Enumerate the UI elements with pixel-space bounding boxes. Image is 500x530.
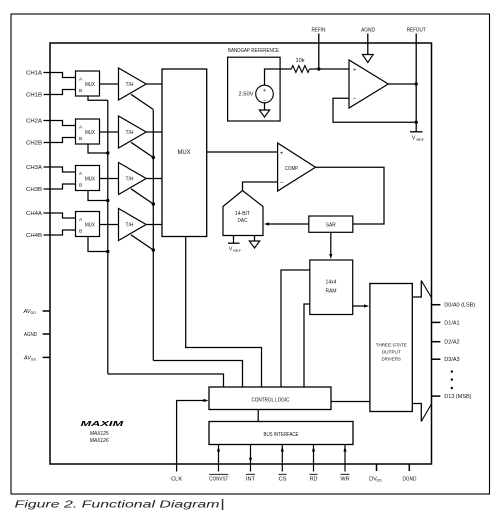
svg-text:CH2A: CH2A — [26, 119, 42, 125]
svg-text:14x4: 14x4 — [326, 280, 337, 286]
svg-text:MAXIM: MAXIM — [81, 419, 125, 428]
svg-text:MUX: MUX — [85, 176, 95, 182]
svg-text:D1/A1: D1/A1 — [444, 320, 459, 326]
svg-text:CH3B: CH3B — [26, 187, 42, 193]
svg-text:CH4A: CH4A — [26, 211, 42, 217]
svg-text:AGND: AGND — [361, 28, 375, 34]
svg-text:D0/A0 (LSB): D0/A0 (LSB) — [444, 303, 475, 309]
svg-text:CS: CS — [279, 477, 287, 483]
svg-text:2.50V: 2.50V — [239, 92, 255, 98]
svg-text:CONTROL LOGIC: CONTROL LOGIC — [252, 398, 290, 404]
svg-text:14-BIT: 14-BIT — [235, 211, 250, 217]
svg-text:AGND: AGND — [24, 332, 37, 338]
svg-text:B: B — [79, 229, 82, 235]
svg-text:T/H: T/H — [126, 130, 134, 136]
svg-text:CLK: CLK — [171, 477, 182, 483]
svg-text:DD: DD — [377, 479, 383, 483]
svg-text:CH3A: CH3A — [26, 165, 42, 171]
svg-text:T/H: T/H — [126, 82, 134, 88]
svg-text:V: V — [229, 247, 233, 253]
svg-text:OUTPUT: OUTPUT — [382, 350, 401, 355]
svg-text:DAC: DAC — [238, 218, 248, 224]
svg-text:Figure 2. Functional Diagram: Figure 2. Functional Diagram — [15, 500, 220, 511]
svg-text:CH2B: CH2B — [26, 141, 42, 147]
svg-text:RD: RD — [310, 477, 318, 483]
svg-text:MUX: MUX — [85, 82, 95, 88]
svg-text:+: + — [263, 88, 266, 94]
svg-text:CH1A: CH1A — [26, 71, 42, 77]
svg-text:RAM: RAM — [326, 289, 337, 295]
svg-text:T/H: T/H — [126, 223, 134, 229]
svg-text:+: + — [280, 150, 284, 157]
svg-text:T/H: T/H — [126, 177, 134, 183]
svg-text:D3/A3: D3/A3 — [444, 357, 459, 363]
svg-text:WR: WR — [341, 477, 350, 483]
svg-text:D13 (MSB): D13 (MSB) — [444, 394, 471, 400]
svg-text:COMP: COMP — [285, 166, 299, 172]
svg-text:DGND: DGND — [403, 477, 417, 483]
svg-text:MUX: MUX — [178, 150, 191, 156]
svg-text:MAX125: MAX125 — [90, 431, 110, 437]
svg-text:THREE-STATE: THREE-STATE — [376, 343, 407, 348]
svg-text:CH1B: CH1B — [26, 93, 42, 99]
svg-text:MAX126: MAX126 — [90, 438, 110, 444]
svg-text:REF: REF — [233, 249, 241, 253]
svg-text:B: B — [79, 136, 82, 142]
svg-text:CONVST: CONVST — [209, 477, 229, 483]
svg-text:BUS INTERFACE: BUS INTERFACE — [264, 432, 299, 438]
svg-text:SAR: SAR — [326, 222, 336, 228]
svg-text:V: V — [412, 136, 416, 142]
svg-text:MUX: MUX — [85, 222, 95, 228]
svg-text:B: B — [79, 183, 82, 189]
svg-text:DRIVERS: DRIVERS — [381, 357, 401, 362]
svg-text:REFOUT: REFOUT — [407, 28, 427, 34]
svg-text:D2/A2: D2/A2 — [444, 340, 459, 346]
svg-text:REFIN: REFIN — [312, 28, 326, 34]
svg-text:BANDGAP REFERENCE: BANDGAP REFERENCE — [228, 48, 279, 54]
svg-text:10k: 10k — [296, 58, 305, 64]
svg-text:CH4B: CH4B — [26, 233, 42, 239]
svg-text:−: − — [280, 180, 284, 187]
svg-text:INT: INT — [246, 477, 256, 483]
svg-text:REF: REF — [417, 138, 425, 142]
svg-text:B: B — [79, 88, 82, 94]
svg-text:MUX: MUX — [85, 130, 95, 136]
